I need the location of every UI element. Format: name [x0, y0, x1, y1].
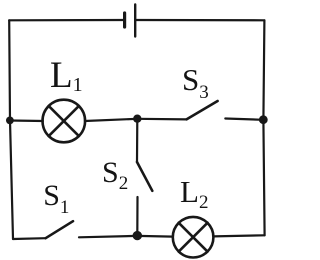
wire switch S1 to node D	[79, 236, 137, 237]
node C junction dot	[259, 115, 268, 124]
switch S1 lever	[46, 221, 73, 238]
wire top-left to battery	[9, 19, 123, 21]
node D junction dot	[133, 231, 142, 240]
wire lamp L2 to bottom-right corner	[213, 235, 264, 236]
wire node B to switch S3	[137, 118, 186, 121]
battery B1 short plate (negative)	[123, 13, 126, 27]
switch S3 lever	[187, 101, 218, 119]
lamp L2 cross stroke 2	[179, 223, 208, 252]
wire node B down to switch S2	[136, 119, 139, 162]
wire switch S2 to node D	[136, 197, 138, 236]
wire switch S3 to node C	[225, 119, 263, 120]
wire lamp L1 to node B	[85, 119, 138, 121]
lamp L1 cross stroke 1	[49, 106, 79, 136]
node A junction dot	[6, 117, 14, 125]
wire battery to top-right corner	[136, 19, 264, 21]
wire node D to lamp L2	[137, 235, 173, 238]
battery B1 long plate (positive)	[134, 5, 136, 37]
node B junction dot	[133, 115, 141, 123]
lamp L1 cross stroke 2	[49, 106, 79, 136]
lamp L1 circle	[43, 100, 86, 143]
lamp L2 cross stroke 1	[179, 223, 208, 252]
lamp L2 circle	[173, 217, 214, 258]
wire left side vertical	[9, 20, 13, 239]
wire bottom-left corner to switch S1	[13, 237, 46, 240]
wire node A to lamp L1	[10, 119, 43, 122]
switch S2 lever	[137, 162, 152, 191]
wire right side vertical	[263, 20, 264, 235]
